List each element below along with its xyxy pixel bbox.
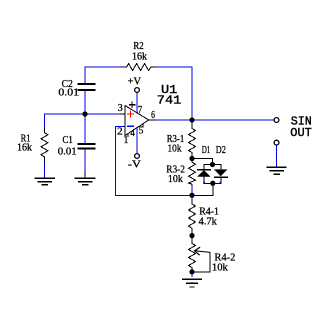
ground bottom under R4-2 [183, 279, 201, 287]
label R3-2 [166, 165, 185, 176]
svg-text:5: 5 [139, 125, 144, 136]
ground under C1 [76, 172, 95, 185]
label OUT [290, 126, 312, 140]
svg-text:D2: D2 [216, 145, 226, 156]
op-amp supply plus mark [129, 102, 134, 107]
label SIN [291, 115, 312, 129]
wire diode branch top link [192, 159, 213, 165]
wire bottom ground stub [191, 272, 193, 277]
op-amp non-inverting plus mark (red) [128, 111, 134, 117]
label R4-1 [199, 207, 219, 218]
svg-text:4: 4 [130, 128, 135, 139]
label -V [128, 160, 141, 171]
label 741 [157, 93, 182, 107]
wire C2 bottom to C1 top through node [84, 90, 86, 144]
potentiometer R4-2 wiper arrow and link [192, 248, 210, 273]
node R4-1/R4-2 junction dot [189, 233, 194, 238]
resistor R1 [41, 128, 48, 162]
op-amp pin 5 stub [142, 124, 144, 127]
svg-text:0.01: 0.01 [58, 87, 79, 98]
label C2 [62, 79, 73, 90]
capacitor C1 [79, 144, 95, 149]
pin 1 label [124, 135, 129, 146]
svg-text:C1: C1 [63, 135, 73, 146]
value 10k for R3-2 [168, 174, 184, 185]
terminal SIN OUT top [274, 118, 279, 123]
op-amp pin 3 stub [121, 113, 126, 115]
pin 3 label [118, 103, 123, 114]
svg-text:10k: 10k [168, 174, 184, 185]
wire diode box top [204, 164, 221, 166]
wire SIN OUT lower terminal to ground [276, 145, 278, 166]
pin 6 label [151, 110, 155, 121]
label D1 [202, 145, 211, 156]
terminal +V [135, 88, 140, 93]
svg-text:16k: 16k [132, 51, 148, 62]
node output junction dot [189, 117, 194, 122]
svg-text:R2: R2 [133, 41, 143, 52]
label R3-1 [167, 134, 185, 145]
wire pin2 feedback loop [116, 127, 192, 196]
svg-text:6: 6 [151, 110, 155, 121]
value 4.7k for R4-1 [199, 216, 218, 227]
pin 7 label [138, 105, 142, 116]
node R3-1/R3-2 junction dot [189, 156, 194, 161]
resistor R3-1 [189, 125, 196, 157]
svg-text:OUT: OUT [290, 126, 312, 140]
wire output pin6 to SIN OUT [155, 119, 274, 121]
svg-text:0.01: 0.01 [58, 146, 77, 157]
wire C1 bottom lead [84, 148, 86, 171]
ground under SIN OUT terminal [268, 167, 286, 174]
svg-text:10k: 10k [212, 262, 229, 273]
value 10k for R4-2 [212, 262, 229, 273]
node diode bottom junction dot [210, 181, 215, 186]
wire input node horizontal R1 to pin 3 [45, 113, 122, 115]
svg-text:+V: +V [128, 76, 142, 87]
wire pin4 to -V terminal [136, 128, 138, 154]
pin 4 label [130, 128, 135, 139]
value 16k for R2 [132, 51, 148, 62]
label R2 [133, 41, 143, 52]
wire C2 top lead [84, 67, 86, 84]
label R4-2 [214, 253, 235, 264]
terminal -V [135, 154, 140, 159]
potentiometer R4-2 [189, 239, 196, 271]
value 0.01 for C1 [58, 146, 77, 157]
svg-text:10k: 10k [168, 144, 183, 155]
resistor R2 [122, 64, 156, 71]
terminal SIN OUT bottom [274, 140, 279, 145]
diode D1 [198, 165, 210, 184]
resistor R3-2 [189, 161, 196, 186]
svg-text:D1: D1 [202, 145, 211, 156]
wire top-left corner to R2 left [85, 66, 122, 68]
wire R1 bottom lead to ground [44, 162, 46, 178]
wire R4-1 leads [191, 195, 193, 235]
wire pin7 to +V terminal [136, 93, 138, 113]
resistor R4-1 [189, 200, 196, 233]
node diode box corner marks [203, 182, 221, 184]
svg-text:1: 1 [124, 135, 129, 146]
wire R3-1 leads [191, 120, 193, 159]
value 10k for R3-1 [168, 144, 183, 155]
capacitor C2 [79, 84, 95, 90]
label C1 [63, 135, 73, 146]
svg-text:7: 7 [138, 105, 142, 116]
wire R4-2 leads [191, 236, 193, 272]
wire diode box bottom [204, 182, 221, 184]
wire diode branch bottom link [192, 183, 213, 195]
wire R3-2 leads [191, 159, 193, 196]
value 0.01 for C2 [58, 87, 79, 98]
svg-text:3: 3 [118, 103, 123, 114]
wire R1 top lead [44, 114, 46, 128]
ground under R1 [36, 178, 55, 184]
svg-text:-V: -V [128, 160, 141, 171]
diode D2 [215, 165, 227, 184]
svg-text:4.7k: 4.7k [199, 216, 218, 227]
label U1 [161, 83, 177, 97]
node R4-2 bottom junction dot [189, 269, 194, 274]
label +V [128, 76, 142, 87]
label D2 [216, 145, 226, 156]
pin 2 label [117, 127, 123, 138]
label R1 [21, 133, 31, 144]
wire R2 right to corner down to output node [156, 67, 192, 120]
op-amp inverting minus mark (blue) [128, 125, 133, 127]
node input junction dot [82, 111, 87, 116]
value 16k for R1 [17, 142, 33, 153]
pin 5 label [139, 125, 144, 136]
op-amp pin 1 stub [127, 134, 129, 137]
node feedback junction dot [189, 193, 194, 198]
svg-text:2: 2 [117, 127, 123, 138]
svg-text:16k: 16k [17, 142, 33, 153]
node diode top junction dot [210, 162, 215, 167]
op-amp U1 triangle [125, 106, 149, 136]
svg-text:741: 741 [157, 93, 182, 107]
op-amp pin 6 output stub [149, 119, 155, 121]
